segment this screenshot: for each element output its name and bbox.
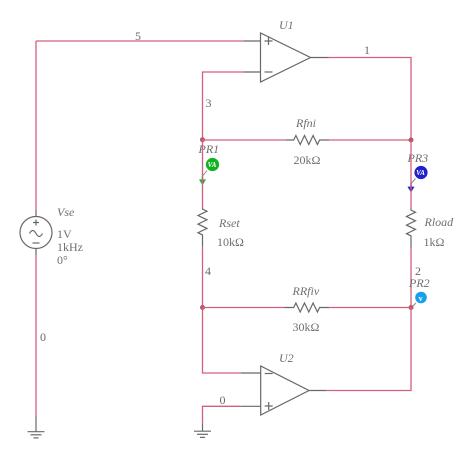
op-amp U1 [244, 33, 329, 82]
wire Rset to node4 junction [202, 247, 204, 308]
svg-text:1V: 1V [57, 227, 72, 241]
svg-text:VA: VA [416, 169, 425, 177]
svg-text:20kΩ: 20kΩ [294, 153, 321, 167]
svg-text:1kHz: 1kHz [57, 240, 83, 254]
probe PR2 [412, 292, 427, 308]
wire net5 top [36, 40, 244, 42]
resistor Rset [198, 208, 207, 247]
svg-text:3: 3 [206, 96, 212, 110]
svg-text:0: 0 [40, 330, 46, 344]
svg-text:5: 5 [135, 29, 141, 43]
source Vse [20, 210, 52, 255]
svg-text:PR1: PR1 [198, 142, 220, 156]
svg-text:v: v [419, 294, 423, 303]
svg-text:Vse: Vse [57, 205, 75, 219]
wire Rload to node2 [410, 248, 412, 308]
junction node2 [409, 305, 414, 310]
wire U1 output net1 [329, 58, 412, 141]
wire left rail lower [35, 255, 37, 417]
wire right rail to Rload [410, 140, 412, 209]
wire U2 output to right rail [326, 308, 411, 391]
svg-text:Rset: Rset [218, 216, 240, 230]
wire node3 to Rset [202, 140, 204, 208]
ground left [28, 417, 45, 438]
svg-text:PR3: PR3 [407, 151, 429, 165]
resistor RRfiv [203, 307, 285, 309]
svg-text:0: 0 [220, 393, 226, 407]
svg-text:VA: VA [208, 161, 217, 169]
svg-text:Rfni: Rfni [295, 116, 316, 130]
svg-text:PR2: PR2 [408, 276, 430, 290]
wire U1 inverting input net3 [203, 72, 245, 140]
junction node3 [200, 137, 205, 142]
wire node4 to U2 inverting input [203, 308, 241, 374]
svg-text:1: 1 [364, 43, 370, 57]
svg-text:4: 4 [205, 264, 211, 278]
junction node4 [200, 305, 205, 310]
svg-text:1kΩ: 1kΩ [424, 235, 445, 249]
svg-text:0°: 0° [57, 253, 68, 267]
ground U2 [194, 424, 211, 438]
op-amp U2 [241, 366, 326, 415]
svg-text:10kΩ: 10kΩ [217, 235, 244, 249]
junction node1/right [409, 138, 414, 143]
svg-text:Rload: Rload [424, 215, 455, 229]
wire left rail upper [35, 41, 37, 210]
wire U2 noninverting input net0 [203, 406, 241, 423]
svg-text:RRfiv: RRfiv [292, 284, 320, 298]
svg-text:30kΩ: 30kΩ [293, 320, 320, 334]
probe PR3 [408, 166, 428, 193]
probe PR1 [199, 158, 219, 186]
svg-text:U1: U1 [279, 18, 294, 32]
resistor Rfni [203, 139, 287, 141]
resistor Rload [407, 209, 416, 248]
svg-text:U2: U2 [279, 351, 294, 365]
